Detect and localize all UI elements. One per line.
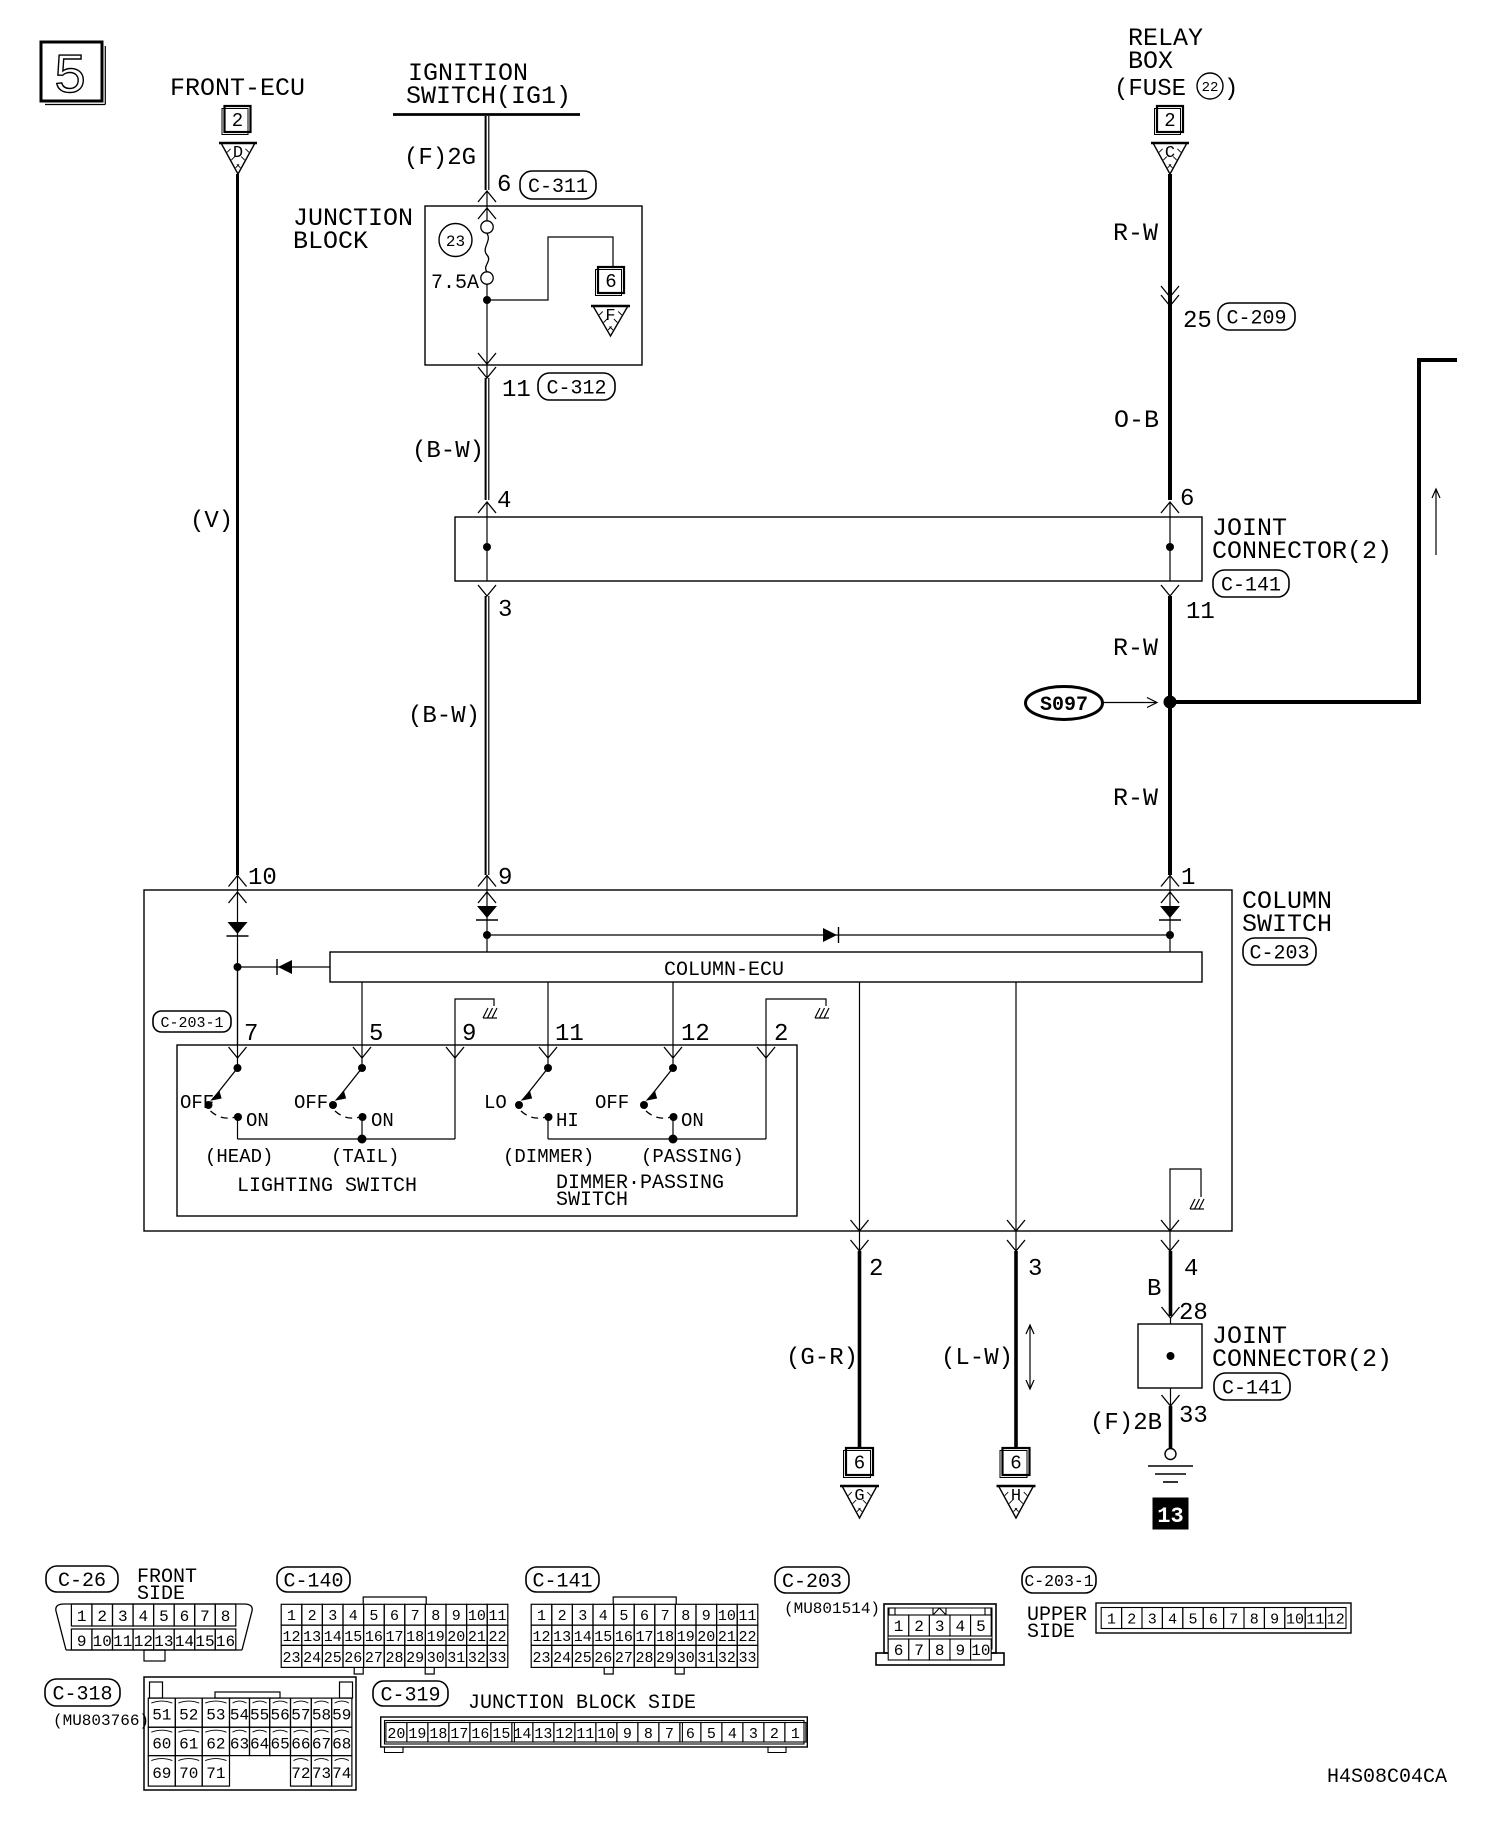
- svg-text:16: 16: [365, 1629, 383, 1646]
- svg-text:R-W: R-W: [1113, 784, 1158, 813]
- svg-text:11: 11: [738, 1608, 756, 1625]
- svg-text:11: 11: [502, 377, 531, 404]
- svg-text:21: 21: [468, 1629, 486, 1646]
- svg-text:(TAIL): (TAIL): [331, 1146, 399, 1168]
- svg-text:1: 1: [537, 1608, 546, 1625]
- svg-text:(FUSE: (FUSE: [1114, 76, 1186, 103]
- svg-text:8: 8: [681, 1608, 690, 1625]
- svg-text:58: 58: [312, 1707, 331, 1725]
- svg-text:1: 1: [77, 1608, 87, 1626]
- svg-text:LIGHTING SWITCH: LIGHTING SWITCH: [237, 1175, 417, 1198]
- svg-text:C-141: C-141: [532, 1571, 592, 1594]
- svg-text:8: 8: [1250, 1612, 1259, 1629]
- svg-text:53: 53: [206, 1707, 225, 1725]
- svg-text:C-311: C-311: [528, 176, 588, 199]
- svg-text:10: 10: [248, 865, 277, 892]
- svg-text:5: 5: [159, 1608, 169, 1626]
- svg-text:16: 16: [216, 1633, 235, 1651]
- svg-text:13: 13: [534, 1726, 552, 1743]
- svg-text:OFF: OFF: [180, 1092, 214, 1114]
- svg-text:10: 10: [718, 1608, 736, 1625]
- svg-text:C-312: C-312: [546, 378, 606, 401]
- svg-text:22: 22: [1202, 80, 1219, 96]
- svg-text:CONNECTOR(2): CONNECTOR(2): [1212, 537, 1392, 566]
- svg-text:68: 68: [332, 1735, 351, 1753]
- svg-text:G: G: [854, 1487, 864, 1506]
- svg-text:23: 23: [282, 1650, 300, 1667]
- svg-text:C-319: C-319: [380, 1685, 440, 1708]
- svg-text:D: D: [233, 144, 243, 163]
- svg-text:51: 51: [152, 1707, 171, 1725]
- svg-text:7: 7: [661, 1608, 670, 1625]
- svg-text:12: 12: [282, 1629, 300, 1646]
- svg-text:17: 17: [450, 1726, 468, 1743]
- svg-text:70: 70: [179, 1765, 198, 1783]
- svg-text:66: 66: [291, 1735, 310, 1753]
- svg-text:1: 1: [1181, 865, 1195, 892]
- svg-text:15: 15: [195, 1633, 214, 1651]
- svg-text:R-W: R-W: [1113, 219, 1158, 248]
- svg-text:29: 29: [406, 1650, 424, 1667]
- svg-text:SIDE: SIDE: [137, 1583, 185, 1606]
- svg-text:23: 23: [446, 233, 465, 251]
- svg-text:(G-R): (G-R): [786, 1345, 858, 1372]
- svg-text:7: 7: [665, 1726, 674, 1743]
- svg-text:26: 26: [344, 1650, 362, 1667]
- svg-text:(B-W): (B-W): [412, 438, 484, 465]
- svg-text:15: 15: [492, 1726, 510, 1743]
- svg-text:C-141: C-141: [1221, 575, 1281, 598]
- svg-text:C-203-1: C-203-1: [160, 1015, 223, 1032]
- svg-text:12: 12: [555, 1726, 573, 1743]
- svg-text:(V): (V): [190, 508, 233, 535]
- svg-text:3: 3: [578, 1608, 587, 1625]
- svg-text:(HEAD): (HEAD): [205, 1146, 273, 1168]
- svg-text:S097: S097: [1040, 694, 1088, 717]
- svg-text:2: 2: [1127, 1612, 1136, 1629]
- svg-text:H: H: [1011, 1487, 1021, 1506]
- svg-text:9: 9: [452, 1608, 461, 1625]
- svg-text:9: 9: [498, 865, 512, 892]
- svg-text:9: 9: [702, 1608, 711, 1625]
- svg-text:FRONT-ECU: FRONT-ECU: [170, 74, 305, 103]
- svg-text:(DIMMER): (DIMMER): [503, 1146, 594, 1168]
- svg-text:24: 24: [303, 1650, 321, 1667]
- svg-text:6: 6: [640, 1608, 649, 1625]
- svg-text:13: 13: [553, 1629, 571, 1646]
- svg-text:10: 10: [597, 1726, 615, 1743]
- svg-text:11: 11: [488, 1608, 506, 1625]
- svg-text:72: 72: [291, 1765, 310, 1783]
- svg-text:54: 54: [230, 1707, 249, 1725]
- svg-text:6: 6: [854, 1452, 865, 1474]
- svg-text:2: 2: [914, 1618, 924, 1636]
- svg-text:HI: HI: [556, 1110, 579, 1132]
- svg-text:3: 3: [118, 1608, 128, 1626]
- svg-text:11: 11: [576, 1726, 594, 1743]
- svg-text:33: 33: [1179, 1403, 1208, 1430]
- svg-text:ON: ON: [371, 1110, 394, 1132]
- svg-text:19: 19: [427, 1629, 445, 1646]
- svg-text:15: 15: [594, 1629, 612, 1646]
- svg-text:9: 9: [955, 1642, 965, 1660]
- svg-text:74: 74: [332, 1765, 351, 1783]
- svg-text:56: 56: [270, 1707, 289, 1725]
- svg-text:8: 8: [221, 1608, 231, 1626]
- svg-text:14: 14: [574, 1629, 592, 1646]
- svg-text:25: 25: [1183, 308, 1212, 335]
- svg-text:32: 32: [468, 1650, 486, 1667]
- svg-text:2: 2: [232, 110, 243, 132]
- svg-text:3: 3: [1148, 1612, 1157, 1629]
- svg-text:62: 62: [206, 1735, 225, 1753]
- svg-text:C: C: [1165, 144, 1175, 163]
- svg-text:33: 33: [738, 1650, 756, 1667]
- svg-text:60: 60: [152, 1735, 171, 1753]
- svg-text:SIDE: SIDE: [1027, 1621, 1075, 1644]
- svg-text:6: 6: [1010, 1452, 1021, 1474]
- svg-text:71: 71: [206, 1765, 225, 1783]
- svg-text:5: 5: [707, 1726, 716, 1743]
- svg-text:16: 16: [471, 1726, 489, 1743]
- svg-text:19: 19: [408, 1726, 426, 1743]
- svg-text:18: 18: [429, 1726, 447, 1743]
- svg-text:C-26: C-26: [58, 1570, 106, 1593]
- svg-text:69: 69: [152, 1765, 171, 1783]
- svg-text:10: 10: [971, 1642, 990, 1660]
- svg-text:2: 2: [770, 1726, 779, 1743]
- svg-text:LO: LO: [484, 1092, 507, 1114]
- svg-text:6: 6: [1180, 486, 1194, 513]
- svg-text:30: 30: [427, 1650, 445, 1667]
- svg-text:2: 2: [1164, 110, 1175, 132]
- svg-text:27: 27: [615, 1650, 633, 1667]
- svg-text:31: 31: [447, 1650, 465, 1667]
- svg-text:63: 63: [230, 1735, 249, 1753]
- svg-text:17: 17: [385, 1629, 403, 1646]
- svg-text:C-318: C-318: [52, 1684, 112, 1707]
- svg-text:OFF: OFF: [294, 1092, 328, 1114]
- svg-text:10: 10: [1286, 1612, 1304, 1629]
- svg-text:6: 6: [1209, 1612, 1218, 1629]
- svg-text:3: 3: [1028, 1256, 1042, 1283]
- svg-text:11: 11: [1306, 1612, 1324, 1629]
- svg-text:14: 14: [324, 1629, 342, 1646]
- svg-text:H4S08C04CA: H4S08C04CA: [1327, 1766, 1447, 1789]
- svg-text:13: 13: [154, 1633, 173, 1651]
- svg-text:2: 2: [97, 1608, 107, 1626]
- svg-text:10: 10: [468, 1608, 486, 1625]
- svg-text:8: 8: [935, 1642, 945, 1660]
- svg-text:24: 24: [553, 1650, 571, 1667]
- svg-text:22: 22: [738, 1629, 756, 1646]
- svg-text:57: 57: [291, 1707, 310, 1725]
- svg-text:10: 10: [93, 1633, 112, 1651]
- svg-text:C-209: C-209: [1226, 308, 1286, 331]
- svg-text:(PASSING): (PASSING): [641, 1146, 744, 1168]
- svg-text:1: 1: [1107, 1612, 1116, 1629]
- svg-text:28: 28: [385, 1650, 403, 1667]
- svg-text:27: 27: [365, 1650, 383, 1667]
- svg-text:13: 13: [303, 1629, 321, 1646]
- svg-text:F: F: [605, 307, 615, 326]
- svg-text:31: 31: [697, 1650, 715, 1667]
- svg-text:C-203-1: C-203-1: [1024, 1572, 1093, 1591]
- svg-text:): ): [1224, 76, 1238, 103]
- svg-text:(MU803766): (MU803766): [53, 1712, 149, 1730]
- svg-text:C-203: C-203: [782, 1571, 842, 1594]
- svg-text:4: 4: [728, 1726, 737, 1743]
- svg-text:ON: ON: [681, 1110, 704, 1132]
- svg-text:4: 4: [599, 1608, 608, 1625]
- svg-text:6: 6: [497, 172, 511, 199]
- svg-text:14: 14: [175, 1633, 194, 1651]
- svg-text:2: 2: [558, 1608, 567, 1625]
- svg-text:28: 28: [1179, 1300, 1208, 1327]
- svg-text:1: 1: [791, 1726, 800, 1743]
- svg-text:12: 12: [532, 1629, 550, 1646]
- svg-text:6: 6: [605, 271, 616, 293]
- svg-text:55: 55: [250, 1707, 269, 1725]
- svg-text:13: 13: [1157, 1504, 1183, 1529]
- svg-text:JUNCTION BLOCK SIDE: JUNCTION BLOCK SIDE: [468, 1692, 696, 1715]
- svg-text:14: 14: [513, 1726, 531, 1743]
- svg-text:7: 7: [200, 1608, 210, 1626]
- svg-text:6: 6: [686, 1726, 695, 1743]
- svg-text:3: 3: [935, 1618, 945, 1636]
- svg-text:4: 4: [349, 1608, 358, 1625]
- svg-text:12: 12: [1327, 1612, 1345, 1629]
- svg-text:4: 4: [1184, 1256, 1198, 1283]
- svg-text:9: 9: [462, 1021, 476, 1048]
- svg-text:28: 28: [635, 1650, 653, 1667]
- svg-text:SWITCH: SWITCH: [556, 1189, 628, 1212]
- svg-text:64: 64: [250, 1735, 269, 1753]
- svg-text:SWITCH(IG1): SWITCH(IG1): [406, 82, 571, 111]
- svg-text:COLUMN-ECU: COLUMN-ECU: [664, 959, 784, 982]
- svg-text:1: 1: [894, 1618, 904, 1636]
- svg-text:18: 18: [406, 1629, 424, 1646]
- svg-text:5: 5: [1188, 1612, 1197, 1629]
- svg-text:5: 5: [619, 1608, 628, 1625]
- svg-text:5: 5: [53, 45, 87, 109]
- svg-text:(MU801514): (MU801514): [784, 1600, 880, 1618]
- svg-text:BOX: BOX: [1128, 47, 1173, 76]
- svg-text:29: 29: [656, 1650, 674, 1667]
- svg-text:23: 23: [532, 1650, 550, 1667]
- svg-text:73: 73: [312, 1765, 331, 1783]
- svg-text:R-W: R-W: [1113, 634, 1158, 663]
- svg-text:11: 11: [555, 1021, 584, 1048]
- svg-text:3: 3: [328, 1608, 337, 1625]
- svg-text:12: 12: [134, 1633, 153, 1651]
- svg-text:19: 19: [677, 1629, 695, 1646]
- svg-text:7: 7: [244, 1021, 258, 1048]
- svg-text:9: 9: [623, 1726, 632, 1743]
- svg-text:20: 20: [387, 1726, 405, 1743]
- svg-text:26: 26: [594, 1650, 612, 1667]
- svg-text:20: 20: [697, 1629, 715, 1646]
- svg-text:(B-W): (B-W): [408, 703, 480, 730]
- svg-text:30: 30: [677, 1650, 695, 1667]
- svg-text:22: 22: [488, 1629, 506, 1646]
- svg-text:C-141: C-141: [1222, 1378, 1282, 1401]
- svg-text:4: 4: [497, 488, 511, 515]
- svg-text:11: 11: [113, 1633, 132, 1651]
- svg-text:4: 4: [955, 1618, 965, 1636]
- svg-text:BLOCK: BLOCK: [293, 227, 368, 256]
- svg-text:2: 2: [308, 1608, 317, 1625]
- svg-text:4: 4: [1168, 1612, 1177, 1629]
- svg-text:17: 17: [635, 1629, 653, 1646]
- svg-text:5: 5: [976, 1618, 986, 1636]
- svg-text:6: 6: [894, 1642, 904, 1660]
- svg-text:16: 16: [615, 1629, 633, 1646]
- svg-text:12: 12: [681, 1021, 710, 1048]
- svg-text:4: 4: [139, 1608, 149, 1626]
- svg-text:6: 6: [390, 1608, 399, 1625]
- svg-text:8: 8: [431, 1608, 440, 1625]
- svg-text:32: 32: [718, 1650, 736, 1667]
- svg-text:2: 2: [774, 1021, 788, 1048]
- svg-text:3: 3: [498, 597, 512, 624]
- svg-text:7.5A: 7.5A: [431, 272, 479, 295]
- svg-text:O-B: O-B: [1114, 406, 1159, 435]
- svg-text:33: 33: [488, 1650, 506, 1667]
- svg-text:7: 7: [1229, 1612, 1238, 1629]
- svg-text:67: 67: [312, 1735, 331, 1753]
- svg-text:15: 15: [344, 1629, 362, 1646]
- svg-text:(F)2B: (F)2B: [1090, 1410, 1162, 1437]
- svg-text:C-140: C-140: [283, 1571, 343, 1594]
- svg-text:5: 5: [369, 1021, 383, 1048]
- svg-text:9: 9: [1270, 1612, 1279, 1629]
- svg-text:CONNECTOR(2): CONNECTOR(2): [1212, 1345, 1392, 1374]
- svg-text:5: 5: [369, 1608, 378, 1625]
- svg-text:(L-W): (L-W): [941, 1345, 1013, 1372]
- svg-text:SWITCH: SWITCH: [1242, 910, 1332, 939]
- svg-text:ON: ON: [246, 1110, 269, 1132]
- svg-text:25: 25: [324, 1650, 342, 1667]
- svg-text:1: 1: [287, 1608, 296, 1625]
- svg-text:6: 6: [180, 1608, 190, 1626]
- svg-text:B: B: [1147, 1276, 1161, 1303]
- svg-text:8: 8: [644, 1726, 653, 1743]
- svg-text:65: 65: [270, 1735, 289, 1753]
- svg-text:61: 61: [179, 1735, 198, 1753]
- svg-text:OFF: OFF: [595, 1092, 629, 1114]
- svg-text:20: 20: [447, 1629, 465, 1646]
- svg-text:9: 9: [77, 1633, 87, 1651]
- svg-text:59: 59: [332, 1707, 351, 1725]
- svg-text:52: 52: [179, 1707, 198, 1725]
- svg-text:3: 3: [749, 1726, 758, 1743]
- svg-text:(F)2G: (F)2G: [404, 145, 476, 172]
- svg-text:18: 18: [656, 1629, 674, 1646]
- svg-text:7: 7: [411, 1608, 420, 1625]
- svg-text:7: 7: [914, 1642, 924, 1660]
- svg-text:21: 21: [718, 1629, 736, 1646]
- svg-text:11: 11: [1186, 599, 1215, 626]
- svg-text:C-203: C-203: [1249, 943, 1309, 966]
- svg-text:25: 25: [574, 1650, 592, 1667]
- svg-text:2: 2: [869, 1256, 883, 1283]
